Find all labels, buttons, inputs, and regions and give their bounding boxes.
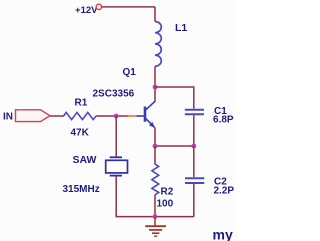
node ground junction [153,214,158,219]
wire C2 top from mid junction [193,146,195,177]
svg-text:6.8P: 6.8P [213,115,234,126]
wire L1 bottom to collector junction [154,66,156,102]
wire top horizontal from +12V to rail [102,6,156,8]
node C2 junction [191,144,196,149]
transistor Q1 [137,101,156,128]
svg-text:L1: L1 [175,22,187,34]
capacitor C2 [185,177,204,179]
resistor R1 [64,112,97,119]
node emitter junction [153,144,158,149]
port IN [16,110,51,122]
svg-text:+12V: +12V [75,5,98,16]
wire emitter down to mid junction [154,128,156,147]
inductor L1 [155,22,161,67]
ground [145,217,166,237]
wire C1 bottom to mid junction [193,115,195,146]
wire top vertical down to L1 [154,7,156,22]
svg-text:2.2P: 2.2P [214,186,235,197]
wire mid horizontal emitter to C2 [155,145,194,147]
wire branch right to C1 [155,87,194,109]
svg-text:R1: R1 [75,98,88,109]
svg-text:R2: R2 [161,187,174,198]
resistor R2 [152,164,159,195]
svg-text:100: 100 [157,199,174,210]
wire base junction down to SAW [115,116,117,157]
wire R2 bottom to ground rail [154,195,156,217]
wire SAW bottom to ground rail [116,177,194,217]
svg-text:SAW: SAW [73,154,97,166]
capacitor C1 [185,109,204,111]
node base junction [114,114,119,119]
svg-text:my: my [213,227,233,241]
wire R1 to base junction [96,115,129,117]
wire junction down to R2 [154,146,156,165]
wire orange segment near base [128,115,137,117]
svg-text:IN: IN [3,112,13,123]
wire C2 bottom to ground rail [193,184,195,217]
wire port to R1 [50,115,64,117]
node collector junction [153,85,158,90]
svg-text:Q1: Q1 [123,67,137,78]
svg-text:315MHz: 315MHz [63,184,100,195]
svg-text:2SC3356: 2SC3356 [93,89,135,100]
svg-text:47K: 47K [71,128,90,139]
power port circle [96,4,101,9]
crystal SAW resonator [106,157,128,175]
